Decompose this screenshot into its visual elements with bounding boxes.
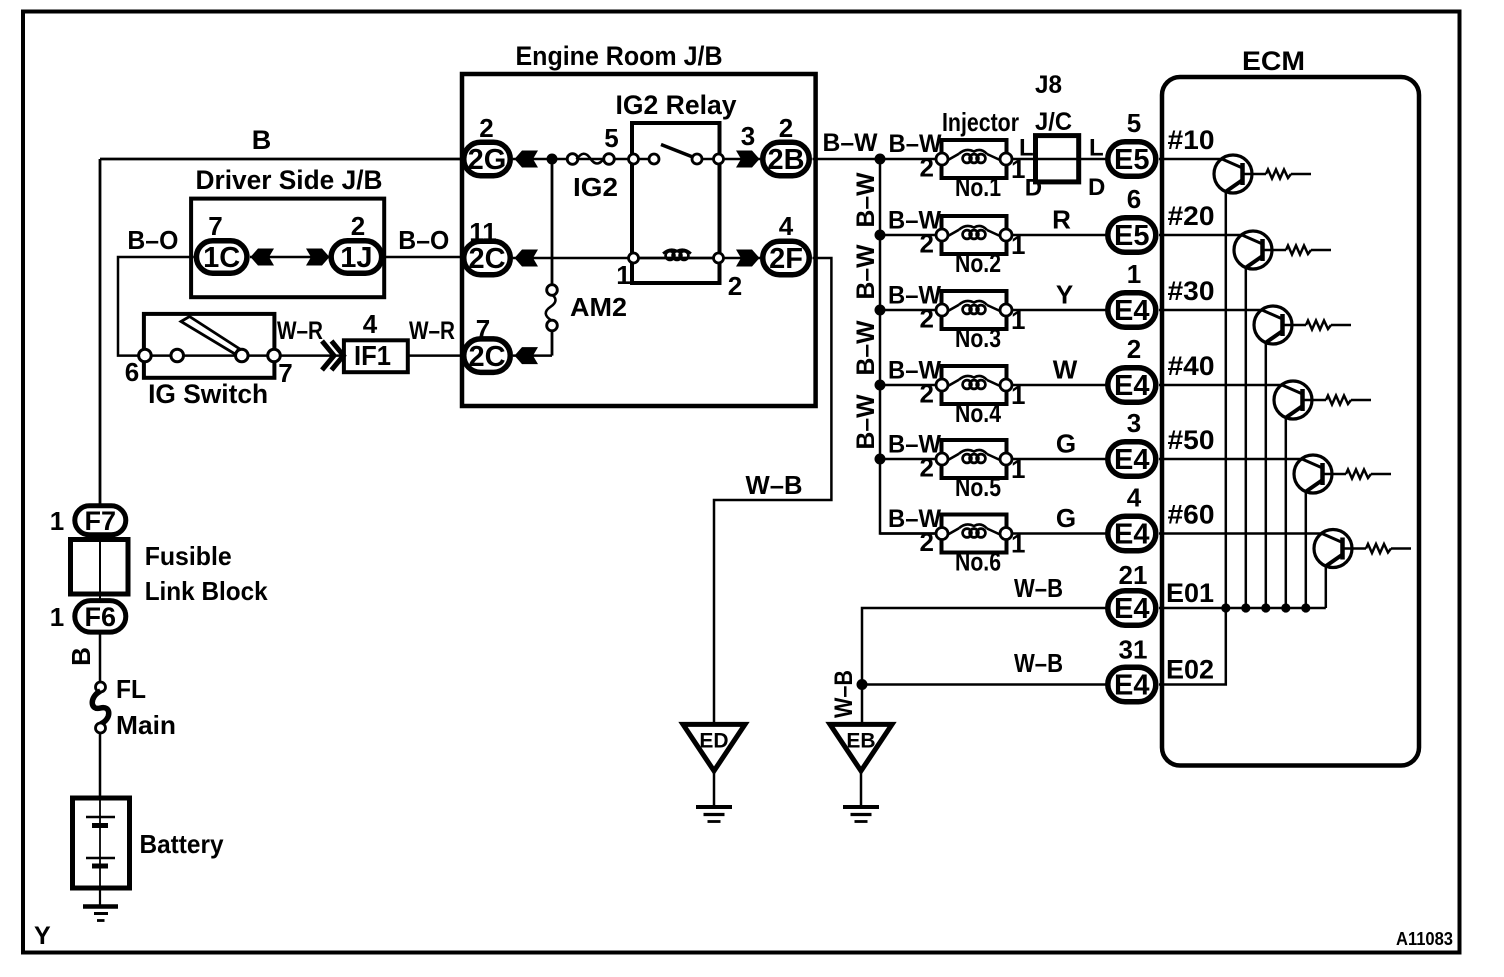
svg-text:E4: E4 [1114, 593, 1149, 625]
svg-text:3: 3 [1127, 408, 1141, 438]
wire base row3 [1159, 309, 1262, 312]
ground point EB triangle [830, 724, 892, 771]
svg-text:E4: E4 [1114, 444, 1149, 476]
injector No.4 [942, 366, 1007, 404]
wire emitter Q6 to E01 line [1325, 566, 1328, 608]
arrow into 2B [736, 151, 760, 168]
injector No.6 [942, 515, 1007, 553]
svg-text:AM2: AM2 [570, 292, 627, 322]
fuse IG2 element [577, 154, 604, 164]
IG switch contact right [236, 349, 249, 362]
svg-text:A11083: A11083 [1396, 929, 1453, 949]
svg-text:2B: 2B [767, 144, 804, 176]
svg-text:No.2: No.2 [955, 248, 1001, 278]
transistor Q3 with resistor [1254, 306, 1292, 344]
svg-text:1C: 1C [203, 242, 240, 274]
svg-text:No.1: No.1 [955, 172, 1001, 202]
fuse F6 [75, 601, 126, 633]
connector E4 E01 [1108, 591, 1156, 626]
svg-text:B: B [66, 647, 96, 666]
wire IG switch to IF1 [279, 354, 344, 357]
svg-text:F7: F7 [85, 506, 117, 536]
svg-text:E5: E5 [1114, 144, 1149, 176]
battery internal wire [99, 800, 101, 886]
svg-text:2: 2 [1127, 334, 1141, 364]
svg-text:Engine Room J/B: Engine Room J/B [516, 41, 723, 71]
wire 2B to bus [813, 158, 881, 161]
wire relay pin5 to contact [639, 158, 650, 161]
svg-text:#10: #10 [1168, 125, 1215, 155]
wire injector No.4 to ECM [1012, 384, 1107, 387]
connector E4 row3 [1108, 293, 1156, 328]
svg-text:E5: E5 [1114, 220, 1149, 252]
fuse AM2 terminal bottom [547, 320, 558, 331]
svg-text:D: D [1025, 174, 1042, 201]
ground battery [83, 904, 118, 909]
wire bus to injector No.1 [880, 158, 941, 161]
svg-text:F6: F6 [85, 602, 117, 632]
svg-text:L: L [1089, 135, 1104, 162]
svg-text:B–O: B–O [398, 225, 449, 255]
relay pin 3 terminal [714, 154, 724, 164]
svg-text:#30: #30 [1168, 276, 1215, 306]
wire bus to injector No.3 [880, 309, 941, 312]
wire emitter Q4 to E01 line [1285, 418, 1288, 608]
transistor Q4 with resistor [1274, 381, 1312, 419]
wire injector No.3 to ECM [1012, 309, 1107, 312]
node bus junction row2 [875, 230, 886, 241]
svg-text:B–W: B–W [852, 320, 880, 375]
arrow into 2C row3 [515, 347, 539, 364]
relay pin 1 terminal [629, 253, 639, 263]
wire injector No.5 to ECM [1012, 458, 1107, 461]
node bus junction row4 [875, 380, 886, 391]
wire emitter Q1 to E01 line [1225, 192, 1228, 608]
svg-text:E01: E01 [1166, 578, 1214, 608]
wire AM2 vertical lower [551, 326, 554, 356]
wire 2G to relay pin 5 [513, 158, 633, 161]
svg-text:ED: ED [699, 729, 728, 752]
transistor Q6 with resistor [1314, 530, 1352, 568]
svg-text:W–B: W–B [1014, 648, 1063, 678]
svg-text:2: 2 [920, 379, 934, 409]
node E01 junction 3 [1261, 603, 1270, 612]
relay pin 2 terminal [714, 253, 724, 263]
svg-text:B–W: B–W [889, 130, 942, 158]
svg-text:J/C: J/C [1035, 108, 1072, 136]
svg-text:W–R: W–R [409, 317, 455, 345]
svg-text:E02: E02 [1166, 655, 1214, 685]
wire F6 to FL Main [99, 630, 102, 682]
svg-text:2C: 2C [468, 341, 505, 373]
IG switch blade [181, 317, 239, 355]
svg-text:Driver Side J/B: Driver Side J/B [196, 165, 383, 195]
wire 1C to IG switch [118, 257, 194, 356]
wire base row6 [1159, 532, 1322, 535]
node E01 junction 1 [1221, 603, 1230, 612]
fuse AM2 terminal top [547, 285, 558, 296]
injector No.5 [942, 440, 1007, 478]
node bus junction row1 [875, 154, 886, 165]
svg-text:7: 7 [208, 211, 222, 241]
wire bus to injector No.2 [880, 234, 941, 237]
svg-text:IG Switch: IG Switch [148, 379, 268, 409]
node E01 junction 2 [1241, 603, 1250, 612]
svg-text:2C: 2C [468, 243, 505, 275]
connector E5 row1 [1108, 142, 1156, 177]
connector 1J [331, 241, 382, 274]
svg-text:B–O: B–O [127, 225, 178, 255]
wire ED triangle to earth [713, 771, 716, 807]
wire IF1 to 2C [408, 354, 461, 357]
wire emitter Q5 to E01 line [1305, 492, 1308, 608]
svg-text:4: 4 [363, 309, 378, 339]
wire 2C row3 to AM2 [513, 354, 552, 357]
svg-text:2G: 2G [468, 144, 507, 176]
connector 2B [763, 142, 810, 176]
connector chevron 2 [332, 341, 344, 370]
battery box [73, 798, 130, 888]
relay contact right [692, 154, 702, 164]
svg-text:21: 21 [1119, 560, 1148, 590]
arrow into 2F [736, 250, 760, 267]
svg-text:2: 2 [920, 453, 934, 483]
svg-text:W–B: W–B [1014, 573, 1063, 603]
svg-text:E4: E4 [1114, 370, 1149, 402]
wire E01 internal line [1159, 607, 1326, 610]
fusible link block [71, 540, 129, 595]
node junction AM2/IG2 [547, 154, 558, 165]
svg-text:L: L [1019, 135, 1034, 162]
arrow into 2G [515, 151, 539, 168]
node EB junction [857, 679, 868, 690]
svg-text:No.4: No.4 [955, 398, 1001, 428]
wire base row1 [1159, 158, 1222, 161]
transistor Q5 with resistor [1294, 455, 1332, 493]
connector chevron 1 [322, 341, 334, 370]
svg-text:E4: E4 [1114, 670, 1149, 702]
injector No.1 [942, 140, 1007, 178]
svg-text:Y: Y [1056, 280, 1073, 310]
svg-text:Battery: Battery [140, 829, 225, 859]
arrow into 1C [251, 249, 275, 266]
svg-text:Fusible: Fusible [145, 541, 232, 571]
connector 2F [763, 241, 810, 275]
transistor Q1 with resistor [1214, 155, 1252, 193]
svg-text:2: 2 [779, 113, 793, 143]
svg-text:B: B [252, 125, 272, 155]
arrow into 1J [306, 249, 330, 266]
wire emitter Q2 to E01 line [1245, 268, 1248, 608]
wire 2F to ED ground [714, 258, 831, 724]
svg-text:W–B: W–B [746, 470, 803, 500]
node E01 junction 5 [1301, 603, 1310, 612]
wire E02 to EB [862, 683, 1106, 686]
wire E01 to EB [862, 608, 1106, 685]
svg-text:2: 2 [920, 527, 934, 557]
wire injector No.2 to ECM [1012, 234, 1107, 237]
svg-text:#40: #40 [1168, 351, 1215, 381]
junction block Engine Room J/B box [462, 74, 816, 406]
svg-text:W–B: W–B [830, 670, 858, 718]
svg-text:J8: J8 [1035, 71, 1062, 99]
wire EB triangle to earth [860, 771, 863, 807]
fusible link FL Main terminal top [96, 682, 106, 692]
wire battery to ground [99, 888, 101, 906]
svg-text:2F: 2F [769, 243, 803, 275]
svg-text:Main: Main [116, 710, 176, 740]
connector E4 row4 [1108, 368, 1156, 403]
svg-text:Y: Y [34, 922, 51, 950]
svg-text:#60: #60 [1168, 500, 1215, 530]
svg-text:FL: FL [116, 674, 146, 704]
wire B horizontal from battery chain to 2G [100, 158, 461, 161]
IG switch pin 7 terminal [268, 349, 281, 362]
svg-text:1: 1 [50, 506, 64, 536]
relay contact left [649, 154, 659, 164]
svg-text:31: 31 [1119, 635, 1148, 665]
svg-text:R: R [1052, 205, 1071, 235]
connector 1C [196, 241, 247, 274]
svg-text:E4: E4 [1114, 519, 1149, 551]
svg-text:3: 3 [741, 121, 755, 151]
connector E4 row5 [1108, 442, 1156, 477]
wire E02 to E01 junction [1159, 608, 1226, 685]
fuse IG2 terminal right [604, 154, 615, 165]
wire relay contact to pin 3 [702, 158, 714, 161]
svg-text:4: 4 [779, 211, 794, 241]
svg-text:4: 4 [1127, 483, 1142, 513]
battery plate short 2 [92, 864, 108, 869]
battery plate short 1 [92, 823, 108, 828]
wire base row5 [1159, 458, 1302, 461]
fusible link block wire through [99, 537, 101, 599]
wire relay pin 2 to 2F [724, 257, 761, 260]
wire battery chain vertical [99, 159, 102, 509]
svg-text:No.5: No.5 [955, 472, 1001, 502]
connector E5 row2 [1108, 218, 1156, 253]
svg-text:#50: #50 [1168, 425, 1215, 455]
junction connector J8 J/C box [1036, 136, 1079, 182]
svg-text:B–W: B–W [852, 172, 880, 227]
battery plate long 2 [86, 857, 115, 860]
svg-text:W: W [1053, 355, 1078, 385]
svg-text:G: G [1056, 503, 1076, 533]
svg-text:1: 1 [616, 260, 630, 290]
svg-text:7: 7 [278, 358, 292, 388]
svg-text:D: D [1088, 174, 1105, 201]
relay switch blade [661, 145, 694, 158]
battery plate long 1 [86, 816, 115, 819]
svg-text:B–W: B–W [852, 244, 880, 299]
svg-text:EB: EB [846, 729, 875, 752]
svg-text:Injector: Injector [942, 107, 1019, 137]
junction block Driver Side J/B box [191, 199, 384, 298]
svg-text:5: 5 [1127, 108, 1141, 138]
svg-text:1J: 1J [340, 242, 372, 274]
arrow into 2C row2 [515, 250, 539, 267]
svg-text:W–R: W–R [277, 317, 323, 345]
connector E4 row6 [1108, 516, 1156, 551]
wire AM2 vertical upper [551, 159, 554, 285]
svg-text:2: 2 [920, 304, 934, 334]
wire 1J to 2C [384, 256, 461, 259]
wire 1C to 1J link [250, 256, 330, 259]
fuse F7 [75, 506, 126, 535]
injector No.3 [942, 291, 1007, 329]
svg-text:B–W: B–W [823, 129, 878, 157]
wire EB down [861, 685, 864, 725]
wire injector No.6 to ECM [1012, 532, 1107, 535]
ground EB earth [843, 805, 879, 809]
relay IG2 box [632, 123, 720, 283]
wire FL Main to battery [99, 733, 102, 799]
svg-text:2: 2 [920, 229, 934, 259]
wire base row4 [1159, 384, 1282, 387]
transistor Q2 with resistor [1234, 231, 1272, 269]
svg-text:6: 6 [125, 357, 139, 387]
svg-text:1: 1 [50, 602, 64, 632]
connector 2G [464, 142, 511, 176]
svg-text:No.3: No.3 [955, 323, 1001, 353]
svg-text:5: 5 [604, 123, 618, 153]
svg-text:6: 6 [1127, 184, 1141, 214]
fuse IF1 box [344, 340, 408, 372]
wire IG switch internal [149, 354, 272, 357]
node E01 junction 4 [1281, 603, 1290, 612]
IG switch pin 6 terminal [139, 349, 152, 362]
wire 2C to relay pin 1 [513, 257, 633, 260]
connector 2C row2 [464, 241, 511, 275]
svg-text:No.6: No.6 [955, 547, 1001, 577]
wire B-W bus vertical [880, 159, 941, 534]
wire relay pin 3 to 2B [724, 158, 761, 161]
svg-text:1: 1 [1127, 259, 1141, 289]
node bus junction row5 [875, 454, 886, 465]
connector 2C row3 [464, 339, 511, 373]
wire bus to injector No.4 [880, 384, 941, 387]
svg-text:2: 2 [351, 211, 365, 241]
wire emitter Q3 to E01 line [1265, 343, 1268, 608]
svg-text:E4: E4 [1114, 295, 1149, 327]
ground ED earth [696, 805, 732, 809]
wire bus to injector No.6 [880, 532, 941, 535]
svg-text:#20: #20 [1168, 201, 1215, 231]
svg-text:B–W: B–W [852, 394, 880, 449]
fuse IG2 terminal left [567, 154, 578, 165]
svg-text:IF1: IF1 [354, 340, 391, 371]
relay pin 5 terminal [629, 154, 639, 164]
svg-text:2: 2 [479, 113, 493, 143]
switch IG Switch box [144, 314, 275, 378]
node bus junction row3 [875, 305, 886, 316]
wire bus to injector No.5 [880, 458, 941, 461]
svg-text:G: G [1056, 429, 1076, 459]
fusible link FL Main terminal bottom [96, 723, 106, 733]
ECM box [1162, 77, 1419, 766]
wire base row2 [1159, 234, 1242, 237]
IG switch contact left [171, 349, 184, 362]
svg-text:IG2: IG2 [573, 172, 618, 202]
injector No.2 [942, 216, 1007, 254]
fusible link FL Main element [92, 691, 109, 724]
connector E4 E02 [1108, 667, 1156, 702]
ground point ED triangle [683, 724, 745, 771]
fuse AM2 element [546, 294, 556, 321]
relay coil [639, 257, 714, 260]
svg-text:ECM: ECM [1242, 46, 1305, 76]
wire injector No.1 to ECM [1012, 158, 1107, 161]
svg-text:Link Block: Link Block [145, 576, 268, 606]
svg-text:IG2 Relay: IG2 Relay [616, 90, 737, 120]
svg-text:2: 2 [728, 271, 742, 301]
